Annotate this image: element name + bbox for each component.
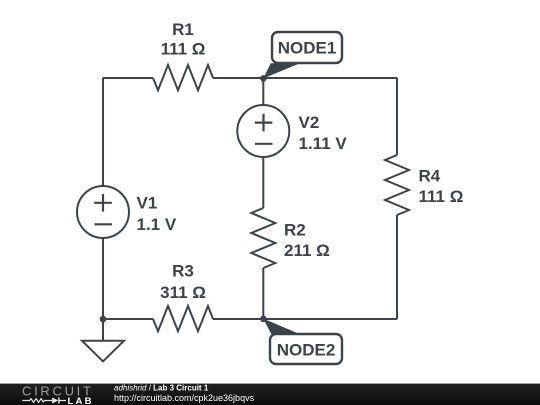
svg-text:V1: V1 — [137, 194, 158, 213]
NODE1 label box — [272, 32, 342, 63]
wire R2 to NODE2 — [262, 268, 264, 319]
voltage source V1 — [77, 186, 129, 238]
NODE2 callout tail — [263, 319, 300, 334]
resistor R3 — [153, 306, 213, 331]
svg-text:R2: R2 — [284, 221, 306, 240]
ground symbol — [82, 341, 124, 362]
wire V2 top lead — [262, 78, 264, 105]
resistor R4 — [385, 155, 409, 215]
node NODE1 junction dot — [260, 75, 267, 82]
NODE2 label box — [270, 334, 342, 364]
svg-text:111 Ω: 111 Ω — [419, 187, 464, 206]
junction dot node A (left bottom) — [100, 316, 107, 323]
V1 minus sign — [94, 223, 112, 225]
svg-text:NODE2: NODE2 — [277, 340, 336, 359]
NODE1 callout tail — [263, 63, 300, 78]
svg-text:R3: R3 — [172, 262, 194, 281]
wire top-left horizontal — [103, 77, 153, 79]
wire left vertical bottom (V1 bottom lead) — [102, 238, 104, 319]
wire bottom left horizontal — [103, 318, 153, 320]
svg-text:R1: R1 — [172, 20, 194, 39]
V2 minus sign — [255, 143, 273, 145]
wire bottom right horizontal — [213, 318, 397, 320]
footer logo resistor-diode line — [22, 399, 66, 403]
resistor R1 — [153, 65, 213, 90]
svg-text:R4: R4 — [419, 167, 441, 186]
svg-text:http://circuitlab.com/cpk2ue36: http://circuitlab.com/cpk2ue36jbqvs — [114, 393, 255, 403]
resistor R2 — [251, 208, 275, 268]
svg-text:1.1 V: 1.1 V — [137, 215, 177, 234]
svg-text:V2: V2 — [299, 113, 320, 132]
V2 plus sign — [255, 114, 273, 132]
svg-text:311 Ω: 311 Ω — [160, 283, 206, 302]
node NODE2 junction dot — [260, 316, 267, 323]
wire left vertical top (V1 top lead) — [102, 78, 104, 186]
svg-text:1.11 V: 1.11 V — [299, 134, 348, 153]
wire V2 to R2 — [262, 157, 264, 208]
svg-text:LAB: LAB — [68, 396, 94, 405]
svg-text:111 Ω: 111 Ω — [161, 40, 206, 59]
voltage source V2 — [237, 105, 289, 157]
svg-text:NODE1: NODE1 — [278, 38, 337, 57]
wire right vertical top (to R4) — [396, 78, 398, 155]
V1 plus sign — [94, 194, 112, 212]
footer logo diode bar — [58, 397, 59, 403]
footer bar — [0, 384, 540, 405]
wire ground stub — [102, 319, 104, 341]
wire top-right horizontal — [213, 77, 397, 79]
svg-text:adhishrid / Lab 3 Circuit 1: adhishrid / Lab 3 Circuit 1 — [114, 383, 209, 392]
wire right vertical bottom — [396, 215, 398, 319]
footer logo diode triangle — [52, 397, 58, 403]
svg-text:211 Ω: 211 Ω — [284, 241, 330, 260]
